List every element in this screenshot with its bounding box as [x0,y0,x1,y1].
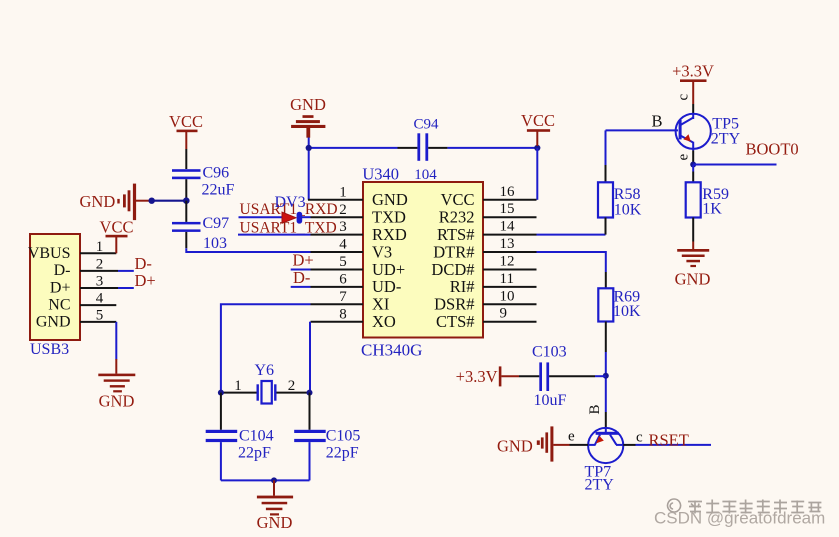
svg-text:GND: GND [290,95,326,114]
pin 2 of U340 [311,202,364,218]
svg-text:GND: GND [257,513,293,532]
svg-text:12: 12 [500,254,515,270]
wire pin14 to R58 [537,234,606,236]
capacitor C94 [398,117,448,183]
svg-text:2: 2 [96,256,104,272]
power port VCC (above pin 16) [521,111,555,146]
svg-text:10: 10 [500,288,515,304]
capacitor C96 [172,149,235,201]
svg-text:D-: D- [293,268,310,287]
svg-text:DV3: DV3 [275,194,306,211]
watermark [654,499,825,527]
pin 3 of USB3 [80,274,118,290]
svg-text:3: 3 [339,219,347,235]
capacitor C105 [294,393,360,481]
net label D+ (pin 5) [291,250,314,269]
transistor TP7 [585,428,624,494]
svg-text:BOOT0: BOOT0 [746,140,799,159]
connector USB3 [28,234,80,358]
svg-text:c: c [676,94,692,101]
svg-text:4: 4 [96,291,104,307]
svg-text:16: 16 [500,184,516,200]
pin 16 of U340 [483,184,537,200]
svg-text:2TY: 2TY [585,477,615,494]
svg-text:C104: C104 [239,428,274,445]
svg-text:NC: NC [48,296,70,313]
svg-text:C96: C96 [203,165,230,182]
svg-text:2: 2 [339,202,347,218]
svg-text:22pF: 22pF [326,444,359,461]
pin 1 of U340 [308,184,363,200]
pin 8 of U340 [311,306,364,322]
svg-text:DCD#: DCD# [431,260,474,279]
pin 3 of U340 [311,219,364,235]
svg-text:8: 8 [339,306,347,322]
resistor R58 [598,130,642,234]
svg-text:13: 13 [500,236,515,252]
pin 15 of U340 [483,201,537,217]
pin 13 of U340 [483,236,537,252]
svg-text:C94: C94 [413,117,439,133]
svg-text:e: e [676,154,692,161]
IC U340 CH340G body [361,165,483,360]
pin 10 of U340 [483,288,537,304]
svg-text:C97: C97 [203,215,230,232]
net label RSET [623,430,711,450]
svg-text:UD-: UD- [372,277,401,296]
svg-text:VCC: VCC [441,190,475,209]
capacitor C103 [519,343,606,409]
svg-text:DSR#: DSR# [434,295,474,314]
pin 2 of USB3 [80,256,118,272]
svg-text:1: 1 [96,239,104,255]
svg-text:GND: GND [675,270,711,289]
svg-text:GND: GND [372,190,408,209]
net BOOT0 [690,140,798,168]
svg-text:V3: V3 [372,242,392,261]
svg-text:D-: D- [54,262,71,279]
net label D- (USB side) [118,254,152,273]
svg-text:B: B [587,404,603,414]
crystal Y6 [218,362,313,404]
svg-text:RSET: RSET [649,430,689,449]
svg-text:RI#: RI# [450,277,475,296]
svg-text:1: 1 [234,378,242,394]
svg-text:XO: XO [372,312,396,331]
svg-text:4: 4 [339,237,347,253]
svg-text:2TY: 2TY [711,130,741,147]
pin 4 of USB3 [80,291,116,307]
svg-text:10K: 10K [614,202,642,219]
svg-text:D+: D+ [135,271,156,290]
svg-text:D+: D+ [293,250,314,269]
svg-text:R58: R58 [614,186,641,203]
svg-text:c: c [636,430,643,446]
power port +3.3V (C103) [456,366,519,386]
wire top rail GND-C94-VCC [306,138,541,200]
svg-text:e: e [568,428,575,444]
svg-text:3: 3 [96,274,104,290]
svg-text:22uF: 22uF [202,182,235,199]
svg-text:D+: D+ [50,279,71,296]
svg-text:11: 11 [500,271,514,287]
svg-text:C105: C105 [326,428,361,445]
svg-text:VCC: VCC [169,112,203,131]
svg-text:C103: C103 [532,343,567,360]
pin 11 of U340 [483,271,537,287]
svg-text:5: 5 [96,307,104,323]
svg-text:10K: 10K [613,303,641,320]
svg-text:GND: GND [80,192,116,211]
svg-text:B: B [652,112,663,131]
wire USB pin5 to ground [115,322,117,360]
power port GND (top, above C94 rail) [290,95,326,138]
wire pin13 to R69 [537,252,606,272]
transistor TP5 [676,94,741,165]
svg-text:9: 9 [500,306,508,322]
svg-text:10uF: 10uF [534,392,567,409]
power port GND (sideways, TP7 emitter) [497,426,588,461]
svg-text:7: 7 [339,289,347,305]
svg-text:UD+: UD+ [372,260,405,279]
wire pin7 to crystal [221,304,311,392]
wire bottom rail of crystal [221,477,310,483]
pin 1 of USB3 [80,239,116,255]
power port GND (crystal) [257,480,293,532]
wire pin8 to crystal [309,322,311,393]
wire GND to C96/C97 junction [149,197,190,204]
pin 5 of U340 [311,254,364,270]
svg-text:CH340G: CH340G [361,341,422,360]
svg-text:XI: XI [372,295,389,314]
wire C97 to pin4 V3 [186,248,310,252]
wire R69 to TP7 base node [587,352,609,433]
net label D+ (USB side) [118,271,156,290]
resistor R59 [686,165,729,242]
svg-text:VCC: VCC [100,218,134,237]
svg-text:VCC: VCC [521,111,555,130]
svg-text:GND: GND [497,437,533,456]
svg-text:CTS#: CTS# [436,312,475,331]
net label D- (pin 6) [291,268,311,287]
power port VCC (USB pin 1) [100,218,134,254]
power port +3.3V (TP5) [672,61,714,104]
pin 14 of U340 [483,219,537,235]
pin 9 of U340 [483,306,537,322]
pin 7 of U340 [311,289,364,305]
svg-text:VBUS: VBUS [28,245,71,262]
svg-text:14: 14 [500,219,516,235]
svg-text:TXD: TXD [372,208,406,227]
power port VCC (C96 branch) [169,112,203,149]
net label USART1_RXD [239,201,338,218]
svg-text:U340: U340 [362,165,399,184]
svg-text:22pF: 22pF [238,444,271,461]
svg-text:1K: 1K [702,201,722,218]
resistor R69 [598,272,641,352]
LED DV3 [275,194,311,224]
svg-text:D-: D- [135,254,152,273]
svg-text:103: 103 [203,235,227,252]
svg-text:GND: GND [36,314,71,331]
pin 5 of USB3 [80,307,116,323]
svg-text:R232: R232 [439,208,475,227]
svg-text:1: 1 [339,184,347,200]
svg-text:RXD: RXD [372,225,407,244]
wire base rail of TP5, node B [606,112,679,131]
svg-text:GND: GND [99,392,135,411]
power port GND (below R59) [675,242,711,289]
svg-text:RTS#: RTS# [437,225,475,244]
svg-text:2: 2 [288,378,296,394]
power port GND (below USB3) [98,359,135,411]
pin 4 of U340 [311,237,364,253]
svg-text:6: 6 [339,272,347,288]
capacitor C97 [172,201,229,252]
svg-text:Y6: Y6 [255,362,275,379]
svg-text:+3.3V: +3.3V [456,367,498,386]
capacitor C104 [206,393,274,481]
svg-text:+3.3V: +3.3V [672,61,714,80]
svg-text:104: 104 [414,167,437,183]
pin 12 of U340 [483,254,537,270]
svg-text:USB3: USB3 [30,341,69,358]
svg-text:DTR#: DTR# [433,242,474,261]
net label USART1_TXD [238,219,337,236]
svg-text:15: 15 [500,201,515,217]
svg-text:5: 5 [339,254,347,270]
pin 6 of U340 [311,272,364,288]
power port GND (sideways, left of C96) [80,184,153,221]
svg-text:CSDN @greatofdream: CSDN @greatofdream [654,509,825,528]
